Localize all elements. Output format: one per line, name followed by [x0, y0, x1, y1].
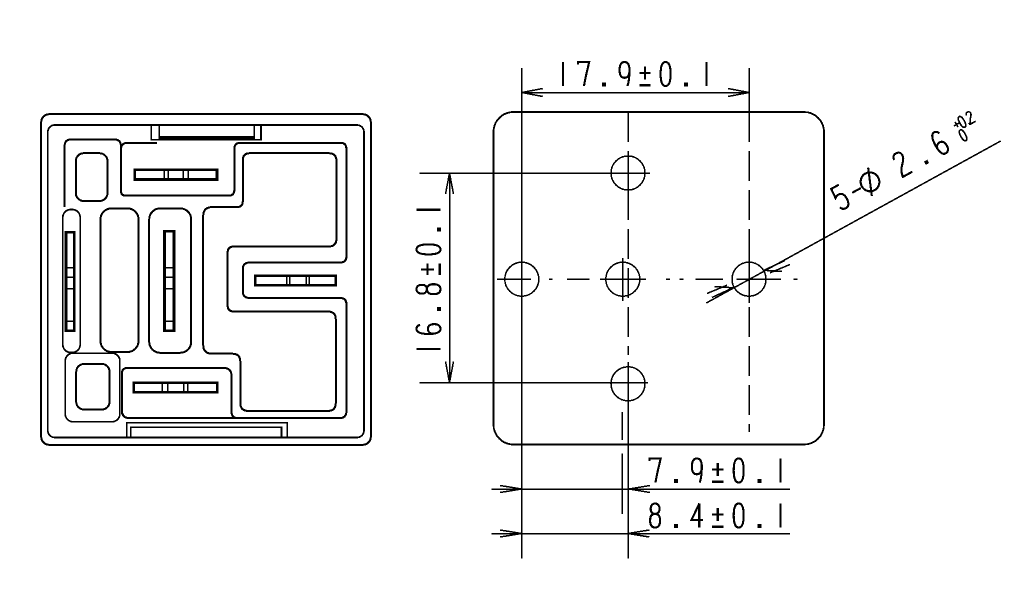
dimension line 16.8 vertical [446, 173, 454, 383]
pcb outline [494, 112, 825, 445]
relay outer case outline [41, 114, 371, 445]
centerline vertical through left holes (extension line) [521, 68, 523, 559]
top-left pocket island [76, 153, 108, 201]
extension line to hole T (for 16.8 dim) [420, 172, 651, 174]
arrow at center column pointing left [628, 530, 649, 537]
dimension text 8.4 +/-0.1 [650, 504, 780, 528]
dimension line 8.4 [492, 530, 790, 537]
arrow at left column pointing right [500, 530, 522, 537]
center channel 1 outline (empty) [101, 208, 139, 352]
arrow at left column pointing right [500, 486, 522, 493]
arrowhead right [728, 89, 749, 97]
arrowhead up [446, 173, 454, 194]
hole callout text 5-phi2.6 [830, 129, 951, 212]
dimension line 7.9 [492, 486, 790, 493]
right terminal slot [255, 276, 336, 286]
hole T [611, 156, 645, 190]
dimension text 7.9 +/-0.1 [650, 459, 781, 483]
vertical cross at hole T top [627, 151, 629, 195]
hole L [505, 262, 539, 296]
bottom tab inner [131, 427, 282, 437]
center terminal slot [165, 231, 175, 330]
top channel top edge segment [121, 143, 157, 150]
bottom-left pocket island [76, 364, 109, 410]
leader line for hole callout [706, 141, 1000, 303]
top tab right divider [253, 125, 255, 139]
dimension text 16.8 +/-0.1 (vertical) [417, 210, 441, 349]
top tab thick bar [159, 136, 254, 139]
arrowhead left [522, 89, 543, 97]
horizontal centerline through middle row (dash-dot) [497, 278, 798, 280]
hole R [732, 262, 766, 296]
hole B [611, 367, 645, 401]
arrowhead down [446, 362, 454, 383]
left channel outline [63, 210, 80, 353]
dimension text 17.9 +/-0.1 [563, 62, 707, 86]
top tab left divider [158, 125, 160, 139]
bottom tab outer [127, 423, 288, 438]
C-shaped recess outline (center-right pocket) [203, 153, 336, 411]
extension line to hole B (for 16.8 dim) [420, 382, 649, 384]
center channel 2 outline [149, 208, 191, 352]
leader arrowhead at hole upper right [764, 261, 785, 272]
bottom-left pocket outer wall [65, 353, 120, 422]
vertical cross at hole M [622, 258, 624, 301]
hole M [606, 262, 640, 296]
dimension line 17.9 horizontal [522, 89, 749, 97]
arrow at middle column pointing left [629, 486, 650, 493]
relay inner case outline [48, 125, 364, 438]
molding outline: top-left pocket wall, top channel, center-right plateau with slot finger, bottom channel [65, 139, 347, 418]
extension line for hole M below [621, 412, 623, 440]
left terminal slot [66, 232, 74, 330]
centerline vertical through right hole [748, 68, 750, 432]
centerline vertical through T and B holes [627, 112, 629, 559]
top terminal slot [135, 170, 217, 180]
top tab outline [151, 125, 261, 139]
hole callout tolerance stack +0.2 / 0 [951, 111, 975, 132]
leader arrowhead tail lower left [712, 287, 733, 298]
bottom terminal slot [134, 383, 217, 392]
